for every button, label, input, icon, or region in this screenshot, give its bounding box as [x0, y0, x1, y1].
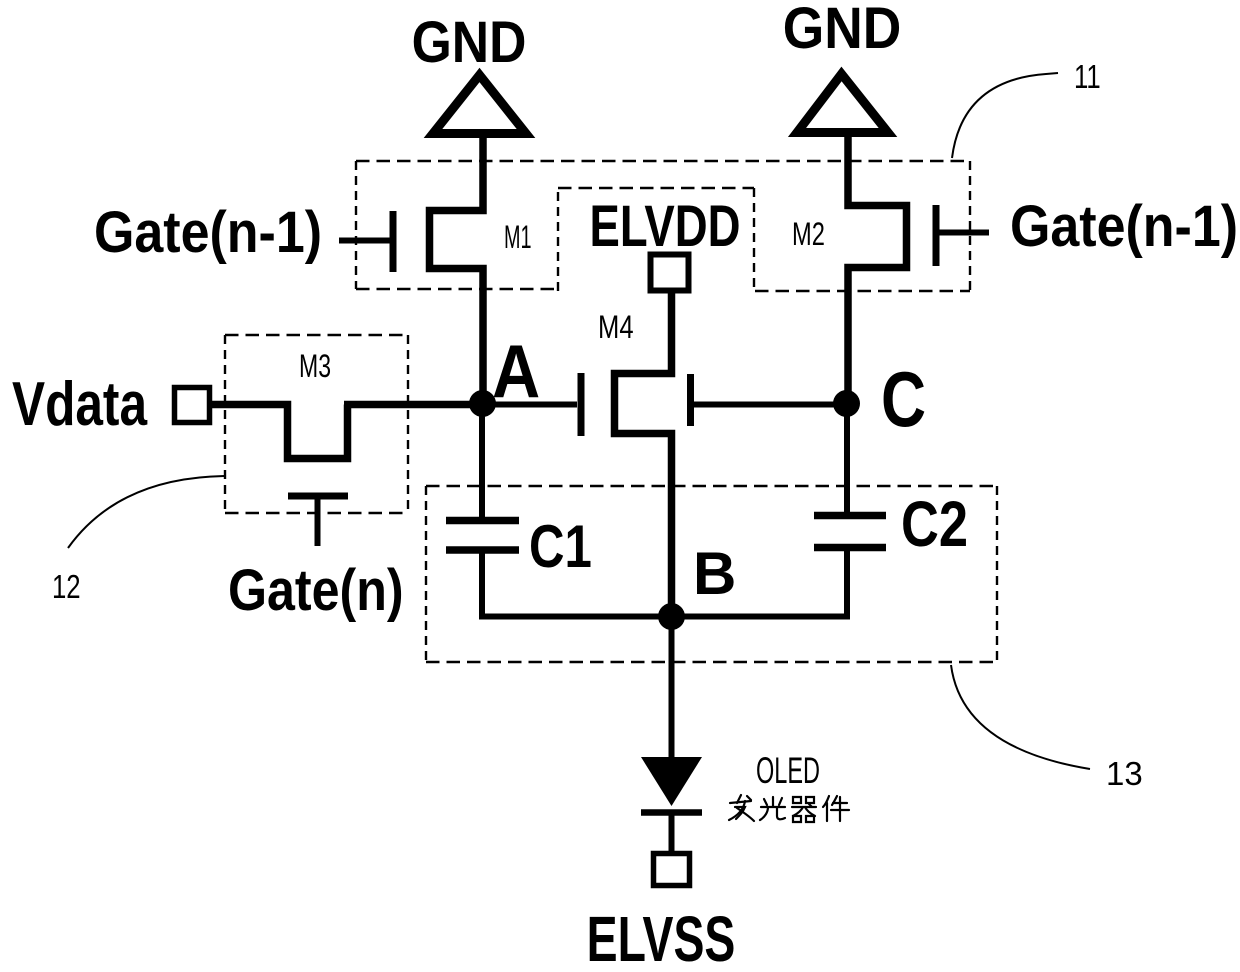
transistor M2 gate bar: [933, 205, 940, 266]
terminal square Vdata: [175, 388, 210, 423]
wire node C down to C2: [844, 404, 850, 512]
svg-text:13: 13: [1106, 755, 1143, 792]
svg-text:ELVDD: ELVDD: [590, 195, 741, 260]
node B junction dot: [658, 603, 685, 630]
wire M4 right bar to node C: [694, 402, 846, 408]
svg-text:A: A: [492, 330, 540, 413]
node C junction dot: [833, 390, 860, 417]
transistor M3 channel wire from Vdata to node A: [210, 405, 480, 459]
wire gate lead M1: [339, 238, 390, 244]
wire OLED to ELVSS terminal: [669, 813, 675, 853]
svg-text:12: 12: [52, 569, 81, 606]
ground GND right symbol: [797, 74, 888, 133]
dashed box around ELVDD / M4: [558, 188, 754, 291]
svg-text:OLED: OLED: [756, 750, 820, 792]
terminal square ELVDD: [651, 255, 689, 291]
svg-text:B: B: [693, 540, 736, 607]
wire gate lead M2: [939, 230, 989, 236]
svg-text:M4: M4: [598, 310, 634, 345]
node A junction dot: [469, 390, 496, 417]
svg-text:Gate(n-1): Gate(n-1): [1010, 193, 1238, 258]
svg-text:M1: M1: [504, 219, 532, 255]
svg-text:C: C: [881, 355, 926, 442]
terminal square ELVSS: [654, 854, 690, 886]
svg-text:C1: C1: [529, 512, 592, 580]
ground GND left symbol: [433, 75, 526, 134]
leader line to 12: [68, 476, 224, 548]
dashed box 13 around C1 C2: [426, 486, 997, 662]
wire node A down to C1: [479, 404, 485, 517]
transistor M2 channel and leads: [848, 134, 907, 404]
transistor M1 channel and leads: [430, 134, 484, 404]
capacitor C2: [814, 516, 886, 548]
chinese label 发光器件: [729, 795, 849, 822]
leader line to 11: [952, 73, 1058, 158]
wire gate stem M3: [315, 496, 321, 546]
wire node A to M4 gate: [482, 402, 577, 408]
svg-text:ELVSS: ELVSS: [587, 903, 736, 972]
wire C1 down to node B rail: [479, 553, 485, 620]
transistor M1 gate bar: [390, 211, 397, 272]
dashed box 11: [356, 161, 970, 291]
dashed box 12 around M3: [225, 335, 408, 513]
wire C2 down to node B rail: [844, 551, 850, 620]
capacitor C1: [446, 521, 519, 551]
transistor M4 channel from ELVDD to node B: [615, 291, 672, 617]
svg-text:Vdata: Vdata: [12, 369, 148, 439]
wire node B down to OLED: [669, 617, 675, 758]
svg-text:C2: C2: [901, 489, 968, 560]
OLED cathode bar: [641, 809, 702, 816]
leader line to 13: [951, 665, 1090, 769]
svg-text:Gate(n): Gate(n): [228, 559, 404, 623]
transistor M4 right bar: [687, 374, 694, 426]
wire bottom rail C1 to C2: [479, 614, 848, 620]
svg-text:M2: M2: [792, 217, 825, 252]
svg-text:M3: M3: [299, 348, 331, 384]
svg-text:GND: GND: [783, 0, 902, 60]
transistor M3 gate bar: [288, 493, 348, 500]
svg-text:11: 11: [1074, 59, 1101, 96]
svg-text:Gate(n-1): Gate(n-1): [94, 199, 322, 264]
transistor M4 left gate bar: [578, 373, 585, 436]
svg-text:GND: GND: [412, 9, 527, 74]
OLED diode triangle: [641, 757, 702, 806]
